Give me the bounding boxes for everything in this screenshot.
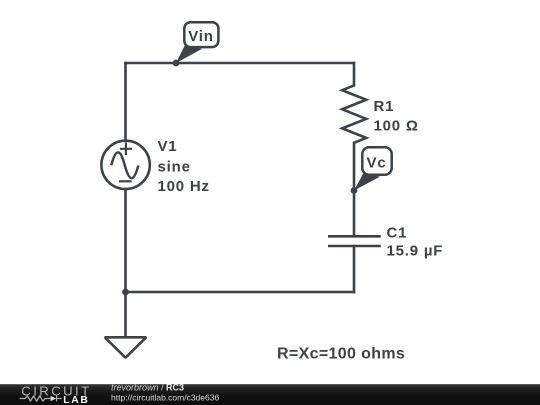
svg-text:LAB: LAB	[63, 395, 89, 405]
wire: from R1 pin 2 down to Vc node	[353, 143, 356, 191]
svg-text:15.9 µF: 15.9 µF	[387, 243, 444, 260]
wire: top horizontal Vin net from left corner to R1 branch	[126, 62, 355, 65]
svg-text:R1: R1	[374, 98, 395, 115]
V1 plus polarity mark	[120, 143, 132, 156]
svg-text:Vin: Vin	[188, 28, 213, 45]
wire: from C1 pin 2 down to bottom corner	[353, 246, 356, 292]
svg-text:sine: sine	[158, 159, 191, 176]
capacitor C1	[328, 236, 381, 246]
svg-text:100 Ω: 100 Ω	[374, 118, 419, 135]
wire: from Vc node down to C1 pin 1	[353, 191, 356, 236]
wire: stub from junction down to ground symbol	[124, 292, 127, 336]
junction dot at ground net	[122, 289, 129, 296]
resistor R1	[342, 85, 366, 142]
wire: V1 bottom terminal down to ground junction	[124, 189, 127, 292]
node Vc: callout tail	[354, 173, 380, 191]
V1 minus polarity mark	[119, 180, 132, 182]
svg-text:C1: C1	[387, 225, 408, 242]
node Vin: junction dot	[173, 60, 180, 67]
svg-text:trevorbrown / RC3: trevorbrown / RC3	[111, 383, 184, 393]
voltage source V1 body	[101, 141, 149, 189]
node Vc: junction dot	[351, 187, 358, 194]
svg-text:100 Hz: 100 Hz	[158, 178, 210, 195]
node Vin: callout box	[184, 22, 218, 47]
wire: bottom horizontal ground net	[126, 291, 355, 294]
wire: left vertical from Vin net corner down to V1 top terminal	[124, 63, 127, 141]
node Vin: callout tail	[176, 45, 202, 63]
svg-text:V1: V1	[158, 138, 178, 155]
V1 sine waveform mark	[111, 152, 138, 178]
footer logo resistor zigzag and diode	[20, 396, 62, 402]
svg-text:R=Xc=100 ohms: R=Xc=100 ohms	[277, 346, 405, 363]
ground	[105, 337, 146, 357]
wire: right vertical from top corner down to R1 pin 1	[353, 63, 356, 85]
footer bar	[0, 384, 540, 405]
svg-text:http://circuitlab.com/c3de636: http://circuitlab.com/c3de636	[111, 392, 219, 402]
node Vc: callout box	[362, 147, 391, 174]
svg-text:Vc: Vc	[367, 155, 387, 172]
